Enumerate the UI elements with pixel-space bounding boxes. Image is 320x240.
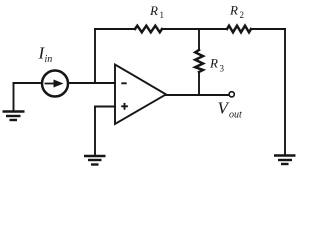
wire noninverting down (95,106.5)-(95,154) (94, 107, 96, 155)
svg-text:out: out (229, 110, 242, 121)
resistor R2 (227, 26, 251, 33)
svg-text:3: 3 (220, 64, 225, 74)
wire input left segment (13.5,83)-(42,83) (14, 82, 43, 84)
wire feedback vertical (95,29)-(95,83) (94, 29, 96, 83)
label R3 (209, 56, 225, 74)
wire R3 top (199,29)-(199,50) (198, 29, 200, 50)
resistor R1 (135, 26, 162, 33)
op-amp U1 (115, 65, 166, 125)
wire top-right segment (254,29)-(285,29) (251, 28, 285, 30)
wire left ground stem (13.5,83)-(13.5,110) (13, 83, 15, 110)
ground (left) (3, 112, 25, 121)
current source I_in (42, 71, 68, 97)
svg-text:in: in (45, 54, 53, 65)
label I_in (38, 44, 53, 66)
svg-text:R: R (209, 56, 218, 71)
label R1 (149, 3, 164, 20)
wire noninverting input (95,106.5)-(115,106.5) (95, 106, 115, 108)
label R2 (229, 3, 244, 21)
wire output (166,95)-(228.5,95) (166, 94, 229, 96)
svg-text:R: R (229, 3, 238, 18)
wire R3 bottom (199,72)-(199,95) (198, 72, 200, 95)
svg-text:R: R (149, 3, 158, 18)
svg-text:2: 2 (240, 10, 245, 20)
wire right vertical (285,29)-(285,154) (284, 29, 286, 154)
wire top middle segment (162,29)-(227,29) (162, 28, 227, 30)
ground (center) (84, 156, 106, 165)
label Vout (218, 99, 243, 121)
node Vout terminal (229, 92, 234, 97)
resistor R3 (195, 50, 203, 72)
svg-text:1: 1 (160, 10, 165, 20)
wire input right segment (68,83)-(115,83) (68, 82, 115, 84)
ground (right) (274, 156, 296, 165)
wire top-left feedback segment (95,29)-(135,29) (95, 28, 135, 30)
